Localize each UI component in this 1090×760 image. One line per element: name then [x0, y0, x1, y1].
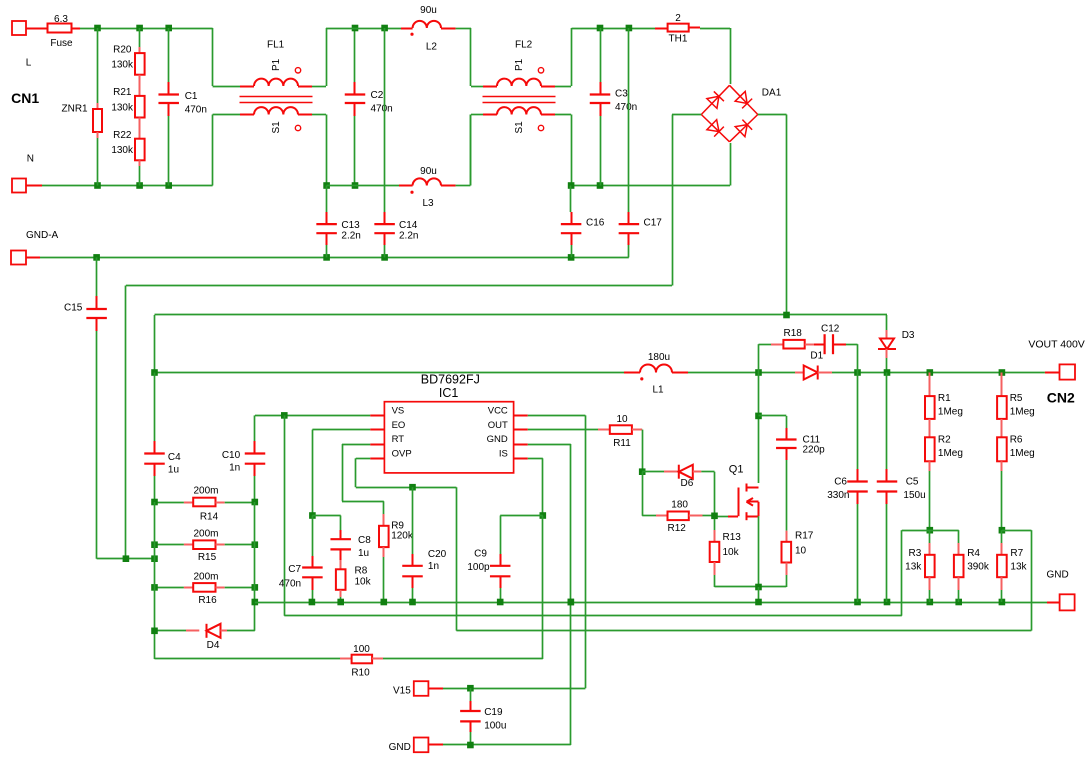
svg-text:470n: 470n	[279, 579, 301, 590]
svg-text:R18: R18	[784, 328, 803, 339]
svg-text:C14: C14	[399, 220, 418, 231]
svg-text:N: N	[27, 154, 34, 165]
svg-text:470n: 470n	[371, 104, 393, 115]
svg-text:90u: 90u	[420, 166, 437, 177]
svg-text:RT: RT	[392, 434, 405, 445]
svg-text:R16: R16	[198, 595, 217, 606]
svg-text:100u: 100u	[484, 721, 506, 732]
svg-text:C4: C4	[168, 452, 181, 463]
svg-text:1u: 1u	[168, 465, 179, 476]
svg-text:R12: R12	[668, 523, 687, 534]
svg-text:P1: P1	[514, 58, 525, 71]
svg-text:470n: 470n	[615, 102, 637, 113]
svg-text:10: 10	[795, 546, 807, 557]
svg-text:13k: 13k	[905, 561, 922, 572]
svg-text:220p: 220p	[803, 445, 826, 456]
svg-text:VOUT 400V: VOUT 400V	[1028, 339, 1084, 351]
svg-text:C15: C15	[64, 303, 83, 314]
svg-text:VCC: VCC	[488, 406, 508, 417]
svg-text:1Meg: 1Meg	[938, 448, 963, 459]
svg-text:R22: R22	[113, 130, 132, 141]
svg-text:C6: C6	[834, 476, 847, 487]
svg-text:2: 2	[675, 13, 681, 24]
svg-text:C1: C1	[185, 91, 198, 102]
svg-text:V15: V15	[393, 686, 411, 697]
svg-text:C17: C17	[644, 218, 663, 229]
svg-text:200m: 200m	[193, 528, 218, 539]
svg-text:R11: R11	[613, 438, 631, 449]
svg-text:R4: R4	[967, 548, 980, 559]
svg-text:180: 180	[671, 500, 688, 511]
svg-text:150u: 150u	[903, 490, 925, 501]
svg-text:C7: C7	[288, 564, 301, 575]
svg-text:C8: C8	[358, 535, 371, 546]
svg-text:R8: R8	[355, 566, 368, 577]
svg-text:D1: D1	[810, 351, 823, 362]
svg-text:200m: 200m	[193, 571, 218, 582]
svg-text:ZNR1: ZNR1	[62, 104, 89, 115]
svg-text:R17: R17	[795, 531, 814, 542]
svg-text:OUT: OUT	[488, 420, 508, 431]
svg-text:FL2: FL2	[515, 40, 533, 51]
svg-text:R15: R15	[198, 552, 217, 563]
svg-text:R13: R13	[723, 532, 742, 543]
svg-text:1n: 1n	[428, 561, 439, 572]
svg-text:100p: 100p	[467, 562, 490, 573]
svg-text:180u: 180u	[648, 352, 670, 363]
svg-text:1Meg: 1Meg	[1010, 448, 1035, 459]
svg-text:C20: C20	[428, 549, 447, 560]
svg-text:C5: C5	[906, 476, 919, 487]
svg-text:1u: 1u	[358, 548, 369, 559]
svg-text:2.2n: 2.2n	[341, 231, 360, 242]
svg-text:C3: C3	[615, 89, 628, 100]
svg-text:R3: R3	[909, 548, 922, 559]
svg-text:1Meg: 1Meg	[1010, 407, 1035, 418]
svg-text:C19: C19	[484, 707, 503, 718]
svg-text:C10: C10	[222, 450, 241, 461]
svg-text:L1: L1	[652, 385, 664, 396]
svg-text:Fuse: Fuse	[50, 38, 73, 49]
svg-text:GND: GND	[1047, 570, 1069, 581]
svg-text:DA1: DA1	[762, 88, 782, 99]
svg-text:1n: 1n	[229, 463, 240, 474]
svg-text:D4: D4	[207, 640, 220, 651]
svg-text:10k: 10k	[723, 547, 740, 558]
svg-text:GND: GND	[389, 742, 411, 753]
svg-text:C9: C9	[474, 548, 487, 559]
svg-text:GND: GND	[487, 434, 508, 445]
svg-text:CN1: CN1	[11, 90, 39, 106]
svg-text:10k: 10k	[355, 577, 372, 588]
svg-text:R20: R20	[113, 44, 132, 55]
svg-text:90u: 90u	[420, 5, 437, 16]
svg-text:R2: R2	[938, 435, 951, 446]
svg-text:R7: R7	[1010, 548, 1023, 559]
svg-text:1Meg: 1Meg	[938, 407, 963, 418]
svg-text:120k: 120k	[391, 531, 414, 542]
svg-text:D6: D6	[681, 478, 694, 489]
svg-text:S1: S1	[514, 121, 525, 134]
svg-text:P1: P1	[271, 58, 282, 71]
svg-text:L2: L2	[426, 42, 438, 53]
svg-text:L: L	[26, 58, 32, 69]
svg-text:13k: 13k	[1010, 561, 1027, 572]
svg-text:200m: 200m	[193, 486, 218, 497]
svg-text:L3: L3	[422, 198, 434, 209]
svg-text:470n: 470n	[185, 105, 207, 116]
svg-text:R14: R14	[200, 511, 219, 522]
svg-text:GND-A: GND-A	[26, 230, 59, 241]
svg-text:C2: C2	[371, 90, 384, 101]
svg-text:TH1: TH1	[669, 34, 688, 45]
svg-text:S1: S1	[271, 121, 282, 134]
svg-text:IC1: IC1	[439, 386, 459, 400]
svg-text:BD7692FJ: BD7692FJ	[421, 373, 480, 387]
svg-text:R10: R10	[351, 668, 370, 679]
svg-text:EO: EO	[392, 420, 406, 431]
svg-text:2.2n: 2.2n	[399, 231, 418, 242]
svg-text:FL1: FL1	[267, 40, 285, 51]
svg-text:C12: C12	[821, 324, 840, 335]
svg-text:330n: 330n	[827, 490, 849, 501]
svg-text:Q1: Q1	[729, 464, 744, 476]
svg-text:C13: C13	[341, 220, 360, 231]
svg-text:10: 10	[616, 414, 628, 425]
svg-text:VS: VS	[392, 406, 405, 417]
svg-text:390k: 390k	[967, 561, 990, 572]
svg-text:130k: 130k	[111, 102, 134, 113]
svg-text:R1: R1	[938, 393, 951, 404]
svg-text:C16: C16	[586, 218, 605, 229]
svg-text:CN2: CN2	[1047, 389, 1075, 405]
svg-text:130k: 130k	[111, 145, 134, 156]
svg-text:R5: R5	[1010, 393, 1023, 404]
svg-text:OVP: OVP	[392, 449, 412, 460]
svg-text:R6: R6	[1010, 435, 1023, 446]
svg-text:130k: 130k	[111, 60, 134, 71]
svg-text:100: 100	[353, 644, 370, 655]
svg-text:IS: IS	[499, 449, 508, 460]
svg-text:R21: R21	[113, 87, 132, 98]
svg-text:D3: D3	[902, 330, 915, 341]
